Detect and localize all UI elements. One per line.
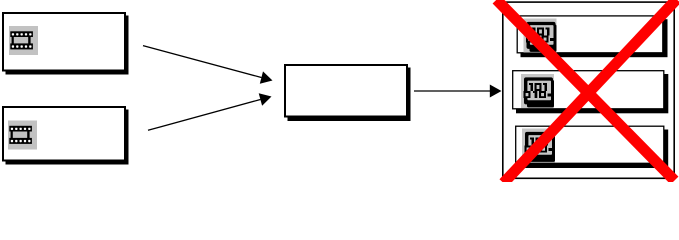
video source box 2 shadow xyxy=(6,110,129,165)
output box B shadow xyxy=(516,74,668,113)
binary icon B xyxy=(521,74,554,108)
output box B xyxy=(513,71,664,109)
red X stroke backslash xyxy=(497,0,675,181)
output group outer rectangle xyxy=(503,2,674,178)
arrow from box 2 to middle box xyxy=(148,93,272,130)
middle process box xyxy=(285,65,407,117)
arrow from box 1 to middle box xyxy=(143,46,273,84)
film icon 2 xyxy=(8,121,37,150)
output box C shadow xyxy=(519,130,668,169)
output box C xyxy=(516,126,664,163)
arrow from middle box to output group xyxy=(414,85,502,98)
video source box 1 shadow xyxy=(6,16,129,75)
red X stroke slash xyxy=(504,0,677,183)
output box A shadow xyxy=(521,19,668,57)
middle process box shadow xyxy=(288,68,411,122)
output box A xyxy=(517,16,663,53)
binary icon A xyxy=(524,19,557,53)
film icon 1 xyxy=(9,26,38,55)
video source box 1 xyxy=(3,13,125,71)
binary icon C xyxy=(522,129,555,163)
video source box 2 xyxy=(3,107,125,161)
